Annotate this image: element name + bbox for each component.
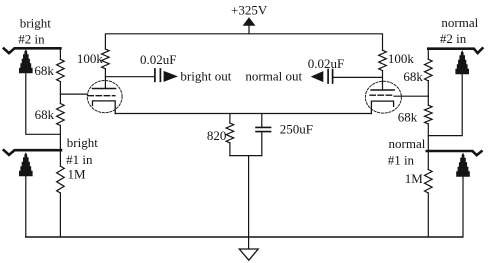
wire plug #1 shaft to ground rail (25, 176, 27, 237)
svg-text:0.02uF: 0.02uF (140, 52, 176, 67)
supply +325V arrow (243, 17, 256, 26)
svg-text:#1 in: #1 in (66, 152, 93, 167)
arrow normal out (311, 71, 324, 82)
svg-text:100k: 100k (77, 51, 104, 66)
svg-text:+325V: +325V (231, 2, 268, 17)
resistor 100k right plate load (379, 50, 387, 70)
svg-text:#1 in: #1 in (388, 153, 415, 168)
wire center stem to ground (248, 156, 250, 249)
wire cathode bus (115, 113, 371, 115)
svg-text:bright out: bright out (180, 68, 231, 83)
svg-text:#2 in: #2 in (440, 31, 467, 46)
svg-text:1M: 1M (405, 171, 424, 186)
triode V2 envelope (right tube) (365, 81, 401, 113)
arrow bright out (164, 71, 178, 82)
wire plug #2R shaft to lower grid node (428, 74, 462, 136)
capacitor 250uF cathode bypass (261, 114, 263, 156)
plug arrow bright #1 (19, 152, 33, 176)
plug arrow bright #2 (19, 49, 33, 73)
triode V2 cathode (371, 101, 393, 113)
wire right plate to coupling cap (333, 76, 382, 78)
capacitor 0.02uF left (155, 69, 161, 81)
plug arrow normal #2 (455, 50, 469, 74)
capacitor 0.02uF right (328, 70, 333, 83)
wire grid lead left tube (60, 93, 87, 95)
wire plug #1R shaft to ground rail (462, 176, 464, 237)
svg-text:68k: 68k (34, 63, 54, 78)
triode V2 plate (371, 89, 394, 91)
resistor 1M left (59, 151, 61, 166)
triode V1 cathode (93, 101, 116, 114)
resistor 820 cathode bias (229, 114, 231, 124)
triode V1 grid (dashed) (88, 95, 115, 97)
ground rail (26, 236, 463, 238)
svg-text:250uF: 250uF (280, 121, 313, 136)
jack bright #1 in contact line (4, 150, 61, 155)
triode V1 envelope (left tube) (87, 81, 122, 113)
wire plug #2 shaft to lower grid node (26, 73, 61, 135)
svg-text:68k: 68k (398, 109, 418, 124)
ground symbol (239, 249, 258, 260)
resistor 100k left plate load (102, 49, 110, 69)
jack bright #2 in contact line (4, 48, 61, 53)
jack normal #1 in contact line (427, 151, 482, 155)
svg-text:68k: 68k (403, 69, 423, 84)
svg-text:100k: 100k (388, 51, 415, 66)
resistor 1M right (427, 151, 429, 170)
svg-text:#2 in: #2 in (18, 32, 45, 47)
svg-text:bright: bright (67, 135, 98, 150)
svg-text:normal: normal (441, 15, 478, 30)
svg-text:normal: normal (389, 136, 426, 151)
triode V2 grid (dashed) (370, 94, 394, 96)
svg-text:bright: bright (20, 16, 51, 31)
wire left plate to coupling cap (105, 76, 154, 78)
svg-text:820: 820 (207, 128, 227, 143)
wire cathode network bottom tie (230, 155, 262, 157)
jack normal #2 in contact line (428, 48, 482, 53)
resistor 68k upper right (427, 49, 429, 60)
wire B+ supply rail (105, 34, 382, 50)
svg-text:normal out: normal out (245, 68, 302, 83)
triode V1 plate (93, 88, 116, 90)
svg-text:68k: 68k (35, 107, 55, 122)
resistor 68k lower left (59, 94, 61, 103)
wire grid lead right tube (394, 95, 428, 97)
plug arrow normal #1 (456, 153, 470, 177)
resistor 68k upper left (59, 48, 61, 59)
svg-text:1M: 1M (68, 166, 87, 181)
svg-text:0.02uF: 0.02uF (308, 56, 344, 71)
resistor 68k lower right (427, 96, 429, 105)
